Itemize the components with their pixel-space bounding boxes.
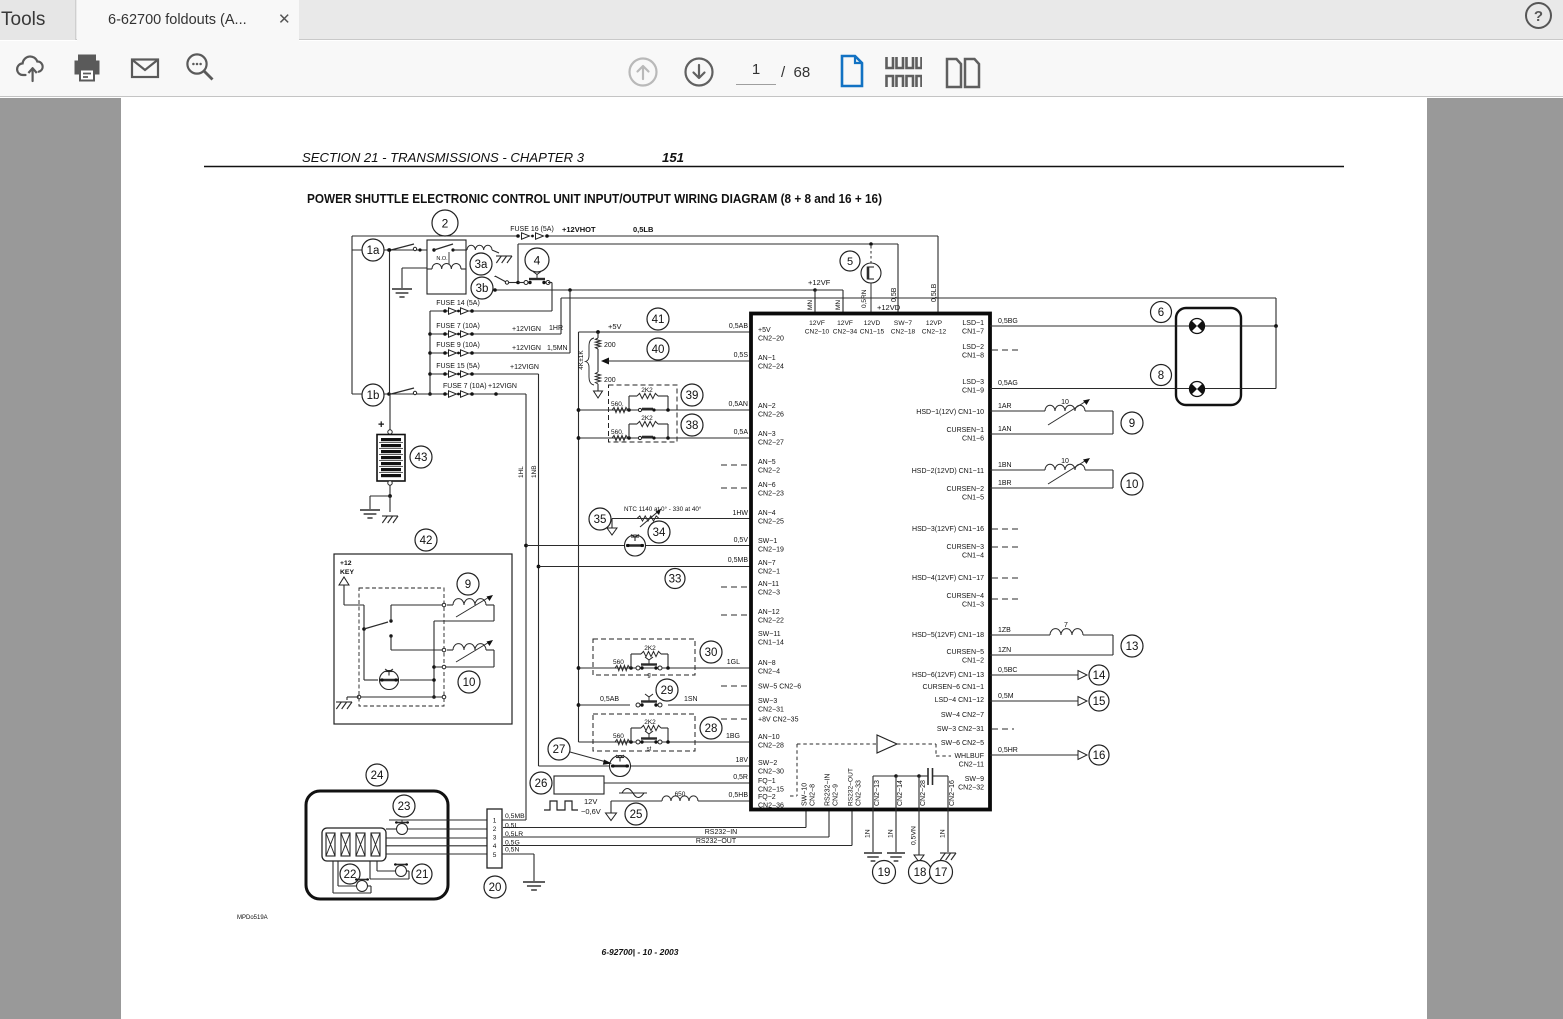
svg-text:FUSE 7 (10A): FUSE 7 (10A) [443, 383, 487, 390]
dashed stub SW-3 right [992, 728, 1014, 730]
svg-text:1AN: 1AN [998, 426, 1012, 433]
oscillator 26 box [554, 776, 604, 794]
svg-text:13: 13 [1126, 641, 1139, 653]
svg-text:RS232−IN: RS232−IN [825, 774, 832, 807]
wire HSD-2 1BN [990, 469, 1045, 471]
circle label 13 [1121, 635, 1143, 657]
squarewave symbol [544, 801, 578, 810]
svg-text:+12VIGN: +12VIGN [510, 364, 539, 371]
wire button output [548, 282, 552, 284]
wire 0,5HR [990, 754, 1078, 756]
svg-text:CN2−8: CN2−8 [810, 784, 817, 806]
fuse FUSE 14 (5A) [443, 309, 447, 313]
wire coil10 return [493, 650, 495, 667]
svg-text:4K±1K: 4K±1K [578, 350, 585, 370]
circle label 34 [648, 521, 670, 543]
wire 0,5AN row [579, 409, 754, 411]
fuse FUSE 7 (10A) [443, 332, 447, 336]
document page [121, 98, 1427, 1019]
circle label 6 [1151, 302, 1172, 323]
circle label 3a [470, 253, 492, 275]
wire 0,5BC [990, 674, 1078, 676]
svg-text:30: 30 [705, 647, 718, 659]
svg-text:CN2−1: CN2−1 [758, 569, 780, 576]
ground triangle divider [594, 391, 603, 398]
wire 0,5BG LSD-1 [990, 325, 1276, 327]
circle label 22 [340, 864, 360, 884]
svg-text:SW−6 CN2−5: SW−6 CN2−5 [941, 740, 984, 747]
relay coil ground wire [402, 267, 427, 269]
svg-text:+12VHOT: +12VHOT [562, 225, 596, 234]
wire keypad bottom [364, 679, 378, 681]
resistor 2K2 box30 [629, 666, 633, 670]
svg-text:AN−2: AN−2 [758, 403, 776, 410]
tab bar [0, 0, 1563, 40]
svg-text:17: 17 [935, 867, 948, 879]
svg-text:CN2−36: CN2−36 [758, 803, 784, 810]
svg-text:1BN: 1BN [998, 462, 1012, 469]
svg-text:HSD−4(12VF) CN1−17: HSD−4(12VF) CN1−17 [912, 575, 984, 582]
svg-text:SW−4 CN2−7: SW−4 CN2−7 [941, 712, 984, 719]
wire rake link [347, 696, 359, 698]
wire left sensor bus [578, 332, 580, 742]
svg-text:CN1−9: CN1−9 [962, 388, 984, 395]
svg-text:0,5S: 0,5S [734, 352, 749, 359]
svg-text:N.O.: N.O. [436, 256, 448, 262]
svg-text:200: 200 [604, 377, 616, 384]
transistor keypad [380, 671, 399, 690]
wire lamp return [1275, 326, 1277, 389]
svg-text:CN1−4: CN1−4 [962, 553, 984, 560]
wire FUSE15 row [430, 373, 539, 375]
wire pin4 row [386, 845, 487, 847]
wire 0,5M [990, 700, 1078, 702]
brace 4K±1K [586, 338, 595, 385]
svg-text:CN1−15: CN1−15 [860, 329, 885, 336]
save icon [15, 50, 51, 91]
svg-text:CN2−2: CN2−2 [758, 468, 780, 475]
coil 10 [453, 644, 486, 650]
svg-text:200: 200 [604, 342, 616, 349]
svg-text:HSD−3(12VF) CN1−16: HSD−3(12VF) CN1−16 [912, 526, 984, 533]
svg-text:0,5HB: 0,5HB [729, 792, 749, 799]
circle label 18 [909, 861, 932, 884]
circle label 17 [930, 861, 953, 884]
circle label 19 [873, 861, 896, 884]
svg-text:40: 40 [652, 344, 665, 356]
wire 0,5R row [604, 782, 753, 784]
connector 20 strip [487, 809, 502, 868]
wire FUSE9 1,5MN row [430, 352, 570, 354]
wire coil9 return [493, 605, 495, 621]
svg-text:AN−4: AN−4 [758, 510, 776, 517]
lamp 8 [1190, 382, 1205, 397]
capacitor C [927, 768, 929, 785]
fuse FUSE 16 (5A) [516, 234, 520, 238]
circle label 16 [1089, 745, 1109, 765]
svg-text:CN2−3: CN2−3 [758, 590, 780, 597]
svg-text:FUSE 9 (10A): FUSE 9 (10A) [436, 342, 480, 349]
svg-text:1N: 1N [940, 829, 947, 838]
svg-text:NTC 1140 at 0° - 330 at 40°: NTC 1140 at 0° - 330 at 40° [624, 505, 702, 513]
svg-text:9: 9 [465, 579, 471, 591]
svg-text:1BR: 1BR [998, 480, 1012, 487]
svg-text:0,5VN: 0,5VN [911, 826, 918, 845]
svg-text:0,5B: 0,5B [891, 287, 898, 302]
display cell 2 [341, 833, 350, 856]
svg-text:0,5AB: 0,5AB [729, 323, 748, 330]
coil 10 arrow [1048, 459, 1088, 484]
svg-text:POWER SHUTTLE ELECTRONIC CONTR: POWER SHUTTLE ELECTRONIC CONTROL UNIT IN… [307, 191, 882, 206]
svg-text:1: 1 [493, 817, 497, 824]
svg-text:CN1−2: CN1−2 [962, 658, 984, 665]
svg-text:HSD−5(12VF) CN1−18: HSD−5(12VF) CN1−18 [912, 632, 984, 639]
lamp cluster box [1176, 308, 1241, 405]
svg-text:AN−7: AN−7 [758, 560, 776, 567]
resistor 2K2 box28 [629, 740, 633, 744]
svg-text:42: 42 [420, 535, 433, 547]
arrow 16 [1078, 751, 1087, 760]
svg-text:41: 41 [652, 314, 665, 326]
svg-text:1HL: 1HL [518, 466, 525, 478]
svg-text:CN2−20: CN2−20 [758, 336, 784, 343]
dashed link FQ-2 to opamp [790, 795, 797, 797]
dashed stub AN-5 [721, 464, 751, 466]
wire +12VF row [495, 289, 815, 291]
wire pin5 row [386, 853, 487, 855]
document tab [77, 0, 299, 41]
wire +12VHOT 0,5LB net [352, 235, 518, 237]
wire CN2-14 ground leg [894, 774, 898, 778]
switch 1a [362, 239, 384, 261]
svg-text:1a: 1a [367, 245, 380, 257]
fuse FUSE 15 (5A) [443, 372, 447, 376]
svg-text:39: 39 [686, 390, 699, 402]
svg-text:12VP: 12VP [926, 320, 943, 327]
svg-text:6-92700| - 10 - 2003: 6-92700| - 10 - 2003 [601, 947, 678, 957]
arrow 15 [1078, 697, 1087, 706]
svg-text:CURSEN−2: CURSEN−2 [946, 486, 984, 493]
chassis ground at relay [492, 250, 499, 253]
svg-text:3b: 3b [476, 283, 489, 295]
op-amp buffer [877, 735, 897, 753]
relay 2 contact [432, 248, 435, 251]
dashed stub CURSEN-3 [992, 546, 1020, 548]
svg-text:RS232−OUT: RS232−OUT [848, 768, 855, 806]
svg-text:SW−5 CN2−6: SW−5 CN2−6 [758, 684, 801, 691]
wire HSD-1 1AR [990, 410, 1045, 412]
svg-text:15: 15 [1093, 696, 1106, 708]
junction 0,5V tap [524, 544, 528, 548]
svg-text:CN2−28: CN2−28 [920, 780, 927, 806]
svg-text:0,5AN: 0,5AN [729, 401, 748, 408]
svg-text:12VD: 12VD [864, 320, 881, 327]
ground triangle 25 [606, 813, 617, 821]
svg-text:5: 5 [847, 256, 853, 268]
svg-text:0,5A: 0,5A [734, 429, 749, 436]
svg-text:20: 20 [489, 882, 502, 894]
svg-text:1AR: 1AR [998, 403, 1012, 410]
coil solenoid 9 [1045, 405, 1085, 411]
wire CURSEN-2 1BR [990, 487, 1113, 489]
svg-text:38: 38 [686, 420, 699, 432]
svg-text:0,5LB: 0,5LB [931, 283, 938, 302]
svg-text:12VF: 12VF [809, 320, 825, 327]
svg-text:SW−2: SW−2 [758, 760, 777, 767]
svg-text:0,5L: 0,5L [505, 823, 518, 830]
wire keypad mid bus [433, 621, 435, 697]
svg-text:0,5HR: 0,5HR [998, 747, 1018, 754]
dashed stub SW-5 [721, 685, 751, 687]
svg-text:AN−6: AN−6 [758, 482, 776, 489]
svg-text:23: 23 [398, 801, 411, 813]
svg-text:34: 34 [653, 527, 666, 539]
transistor 34 [625, 535, 646, 556]
svg-text:−0,6V: −0,6V [581, 807, 601, 816]
wire 1BG row [579, 741, 754, 743]
single page icon [839, 54, 865, 93]
dashed stub +8V [721, 718, 751, 720]
svg-text:CN1−6: CN1−6 [962, 436, 984, 443]
svg-text:CN1−5: CN1−5 [962, 495, 984, 502]
ECU control unit box [751, 314, 990, 810]
svg-text:CN2−16: CN2−16 [949, 780, 956, 806]
circle label 43 [410, 446, 432, 468]
ground 19b [887, 852, 905, 854]
svg-text:CN2−4: CN2−4 [758, 669, 780, 676]
svg-text:CN2−30: CN2−30 [758, 769, 784, 776]
svg-text:0,5R: 0,5R [733, 774, 748, 781]
svg-text:CN2−23: CN2−23 [758, 491, 784, 498]
ground 20 [523, 881, 545, 883]
svg-text:HSD−2(12VD) CN1−11: HSD−2(12VD) CN1−11 [912, 468, 984, 475]
svg-text:CN2−32: CN2−32 [958, 785, 984, 792]
svg-text:1N: 1N [865, 829, 872, 838]
ground triangle NTC [607, 528, 617, 535]
switch 3b and pushbutton row [494, 276, 496, 277]
wire pin3 row [386, 837, 487, 839]
junction [869, 242, 873, 246]
svg-text:29: 29 [661, 685, 674, 697]
wire CN2-28 leg [917, 774, 921, 778]
circle label 29 [656, 679, 678, 701]
svg-text:0,5G: 0,5G [505, 840, 520, 847]
svg-text:AN−3: AN−3 [758, 431, 776, 438]
page number field [736, 61, 776, 85]
svg-text:MN: MN [835, 300, 842, 310]
wire 1HR riser [560, 298, 562, 334]
svg-text:SW−3 CN2−31: SW−3 CN2−31 [937, 726, 984, 733]
svg-text:CN2−26: CN2−26 [758, 412, 784, 419]
svg-text:KEY: KEY [340, 569, 354, 576]
circle label 28 [700, 717, 722, 739]
svg-text:CN2−13: CN2−13 [874, 780, 881, 806]
toolbar [0, 41, 1563, 97]
circle label 25 [625, 803, 647, 825]
svg-text:CN2−27: CN2−27 [758, 440, 784, 447]
svg-text:10: 10 [463, 677, 476, 689]
transistor 27 [610, 756, 631, 777]
svg-text:CN2−24: CN2−24 [758, 364, 784, 371]
dashed stub AN-12 [721, 614, 751, 616]
svg-text:14: 14 [1093, 670, 1106, 682]
dashed stub LSD-2 [992, 349, 1020, 351]
svg-text:2K2: 2K2 [644, 719, 656, 726]
wire RS232-IN run [503, 836, 829, 838]
svg-text:6: 6 [1158, 307, 1164, 319]
circle label 35 [589, 508, 611, 530]
svg-text:CURSEN−4: CURSEN−4 [946, 593, 984, 600]
arrow down 18 [914, 855, 924, 862]
svg-text:0,5BC: 0,5BC [998, 667, 1017, 674]
lamp 23 [397, 824, 408, 835]
fuse FUSE 9 (10A) [443, 351, 447, 355]
dashed box 28 [593, 714, 695, 751]
svg-text:+8V CN2−35: +8V CN2−35 [758, 717, 799, 724]
switch keypad [364, 622, 388, 629]
dashed stub HSD-3 [992, 528, 1020, 530]
svg-text:+5V: +5V [608, 322, 622, 331]
svg-text:SW−11: SW−11 [758, 631, 781, 638]
svg-text:1ZN: 1ZN [998, 647, 1011, 654]
resistor 200 lower [597, 361, 599, 372]
wire keypad gnd bus [359, 696, 444, 698]
svg-text:16: 16 [1093, 750, 1106, 762]
svg-text:CN2−18: CN2−18 [891, 329, 916, 336]
svg-text:0,5V: 0,5V [734, 537, 749, 544]
svg-text:1NB: 1NB [531, 465, 538, 478]
wire 1SN row [579, 704, 631, 706]
svg-text:CN2−10: CN2−10 [805, 329, 830, 336]
wire CN2-16 leg [947, 776, 949, 852]
svg-text:SW−7: SW−7 [894, 320, 912, 327]
svg-text:HSD−1(12V) CN1−10: HSD−1(12V) CN1−10 [916, 409, 984, 416]
svg-text:33: 33 [669, 574, 682, 586]
svg-text:+5V: +5V [758, 327, 771, 334]
wire to coil10 [390, 636, 392, 650]
svg-text:560: 560 [613, 659, 624, 666]
svg-text:AN−10: AN−10 [758, 734, 780, 741]
svg-text:22: 22 [344, 869, 357, 881]
ground relay coil [392, 288, 412, 290]
svg-text:CN2−15: CN2−15 [758, 787, 784, 794]
coil 9 [453, 599, 486, 605]
wire pin2 row [386, 828, 396, 830]
dashed stub CURSEN-4 [992, 598, 1020, 600]
svg-text:+12: +12 [340, 560, 352, 567]
triangle up 12KEY [339, 577, 349, 585]
svg-text:CN2−34: CN2−34 [833, 329, 858, 336]
svg-text:SW−1: SW−1 [758, 538, 777, 545]
circle label 24 [366, 764, 388, 786]
wire +12VF to CN2-34 [815, 289, 843, 291]
svg-text:CN2−31: CN2−31 [758, 707, 784, 714]
wire left feed bus [351, 236, 353, 394]
svg-text:CN1−3: CN1−3 [962, 602, 984, 609]
circle label 5 [840, 251, 860, 271]
svg-text:+: + [378, 419, 384, 431]
wire CURSEN-5 1ZN [990, 654, 1113, 656]
wire HSD-5 1ZB [990, 634, 1050, 636]
lamp 21 [396, 866, 407, 877]
svg-text:st: st [647, 747, 652, 753]
switch 1b [362, 384, 384, 406]
coil 10 arrow [456, 641, 491, 662]
module 42 box [334, 554, 512, 724]
wire 0,5MB row [539, 566, 754, 568]
circle label 15 [1089, 691, 1109, 711]
wire keypad common [363, 605, 365, 680]
module 24 box [306, 791, 448, 899]
svg-text:AN−12: AN−12 [758, 609, 780, 616]
page down button [683, 56, 715, 93]
svg-text:CN2−12: CN2−12 [922, 329, 947, 336]
contact row1 [638, 408, 641, 411]
wire FUSE7 1HR row [430, 333, 561, 335]
lamp 6 [1190, 319, 1205, 334]
svg-text:4: 4 [493, 843, 497, 850]
svg-text:+12VF: +12VF [808, 278, 831, 287]
chassis ground 42 [336, 701, 352, 703]
wire FUSE7b row [352, 393, 526, 395]
svg-text:1HW: 1HW [732, 510, 748, 517]
svg-text:CN2−11: CN2−11 [959, 762, 984, 769]
wire 1HW row [612, 518, 753, 520]
svg-text:10: 10 [1126, 479, 1139, 491]
circle label 8 [1151, 365, 1172, 386]
svg-text:CURSEN−6 CN1−1: CURSEN−6 CN1−1 [923, 684, 985, 691]
svg-text:26: 26 [535, 778, 548, 790]
coil solenoid 13 [1050, 629, 1083, 635]
svg-text:CN2−19: CN2−19 [758, 547, 784, 554]
fuse FUSE 7 (10A) b [443, 392, 447, 396]
pushbutton g [636, 666, 640, 670]
svg-text:RS232−OUT: RS232−OUT [696, 838, 737, 845]
wire pin1 to bus [502, 819, 526, 821]
junction [428, 332, 432, 336]
svg-text:4: 4 [534, 253, 541, 267]
pushbutton 29 [636, 703, 640, 707]
two page icon [944, 56, 982, 95]
svg-text:AN−11: AN−11 [758, 581, 779, 588]
circle label 14 [1089, 665, 1109, 685]
svg-text:0,5MB: 0,5MB [505, 813, 525, 820]
lamp 22 [357, 881, 368, 892]
relay 2 suppression coil [466, 249, 467, 251]
svg-text:CN2−9: CN2−9 [833, 784, 840, 806]
svg-text:28: 28 [705, 723, 718, 735]
wire CN2-13 ground leg [872, 776, 874, 852]
svg-text:0,5RN: 0,5RN [861, 289, 868, 308]
svg-text:2K2: 2K2 [644, 645, 656, 652]
svg-text:MPDo519A: MPDo519A [237, 915, 268, 921]
svg-text:CURSEN−5: CURSEN−5 [946, 649, 984, 656]
svg-text:SECTION 21 - TRANSMISSIONS - C: SECTION 21 - TRANSMISSIONS - CHAPTER 3 [302, 150, 585, 165]
circle label 20 [484, 876, 506, 898]
circle label 42 [415, 529, 437, 551]
svg-text:21: 21 [416, 869, 429, 881]
dashed link opamp to WHLBUF [897, 743, 936, 745]
svg-text:CN1−14: CN1−14 [758, 640, 784, 647]
wire lamp23 feed [389, 819, 487, 821]
wire through lamp box [1176, 325, 1241, 327]
search icon [181, 49, 217, 90]
svg-text:8: 8 [1158, 370, 1164, 382]
svg-text:0,5M: 0,5M [998, 693, 1014, 700]
svg-text:FQ−2: FQ−2 [758, 794, 776, 801]
wire +5V row [579, 331, 754, 333]
circle label 30 [700, 641, 722, 663]
